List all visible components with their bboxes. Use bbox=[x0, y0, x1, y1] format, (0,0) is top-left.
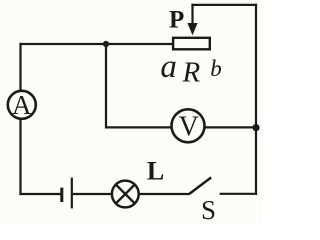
rheostat slider arrow P bbox=[187, 4, 197, 36]
wire middle vertical + horizontal to voltmeter bbox=[106, 44, 173, 127]
wire top horizontal (left corner to rheostat terminal a) bbox=[19, 43, 173, 45]
rheostat R body bbox=[173, 38, 210, 50]
lamp L (circle with X) bbox=[112, 181, 139, 208]
svg-text:L: L bbox=[147, 156, 164, 185]
svg-text:S: S bbox=[201, 195, 216, 224]
svg-text:b: b bbox=[210, 56, 222, 81]
svg-text:P: P bbox=[169, 6, 184, 33]
wire right vertical rail bbox=[255, 4, 257, 195]
wire lamp to switch bbox=[138, 193, 190, 195]
svg-text:A: A bbox=[12, 90, 32, 120]
switch S blade bbox=[190, 177, 212, 193]
junction dot (top node) bbox=[103, 41, 109, 47]
svg-text:R: R bbox=[181, 56, 200, 88]
wire voltmeter to right rail bbox=[204, 126, 257, 128]
svg-text:V: V bbox=[179, 112, 199, 143]
battery positive plate (long thin) bbox=[71, 178, 73, 209]
battery negative plate (short thick) bbox=[60, 188, 63, 202]
junction dot (right rail node) bbox=[252, 124, 259, 131]
wire switch to right corner bbox=[220, 193, 258, 195]
ammeter A bbox=[8, 90, 36, 120]
wire bottom: left corner to battery bbox=[19, 193, 61, 195]
voltmeter V bbox=[172, 109, 205, 142]
svg-text:a: a bbox=[160, 49, 177, 85]
wire battery to lamp bbox=[73, 193, 113, 195]
wire left vertical rail bbox=[19, 43, 21, 195]
wire slider top horizontal to right rail bbox=[191, 4, 257, 6]
